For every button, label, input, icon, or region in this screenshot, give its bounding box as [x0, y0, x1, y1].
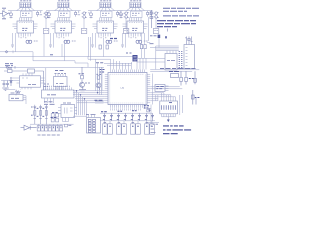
- relay pins down: [63, 118, 69, 122]
- pin pads between U6 and J5: [179, 52, 183, 68]
- oscillator OSC1: [9, 95, 23, 101]
- diamond junction symbols: [5, 51, 8, 53]
- bus line above J7: [30, 123, 74, 125]
- right bus 4 lines: [150, 46, 179, 69]
- sheet text: [163, 126, 191, 134]
- brace mark under notes: [167, 29, 169, 32]
- transistor Q6: [96, 74, 101, 90]
- QFP left pins: [105, 75, 108, 103]
- label left margin: [5, 64, 13, 66]
- net labels: [101, 111, 107, 113]
- channel 2 J2/U2: [46, 1, 87, 48]
- labels RN row: [44, 102, 55, 105]
- caps C1 C2 w/ ground: [2, 81, 9, 91]
- crystal X1 block: [4, 68, 44, 90]
- resistor R5: [15, 91, 21, 93]
- terminal blocks TB1-TB4: [103, 124, 155, 134]
- header J8: [87, 118, 101, 134]
- small part right of J7: [65, 124, 68, 127]
- verticals above QFP: [104, 51, 176, 70]
- part cluster left of relay: [51, 114, 58, 122]
- left column wires: [148, 95, 159, 127]
- pin label row under QFP: [111, 108, 141, 110]
- QFP top pins: [111, 70, 145, 73]
- ground arrow under J6: [167, 120, 170, 123]
- channel 3 J3/U3: [88, 1, 129, 48]
- dark label block: [133, 55, 138, 62]
- notes text block top right: [163, 8, 199, 16]
- xtal block right: [155, 85, 165, 92]
- wire ch1 lower bus: [0, 34, 133, 91]
- dsPIC U5 QFP body: [108, 73, 147, 105]
- diode D1: [10, 77, 12, 86]
- wire mesh left of QFP: [73, 59, 105, 117]
- channel 4 J4/U4: [118, 1, 159, 48]
- QFP right pins: [147, 75, 150, 103]
- bottom connector J7: [37, 126, 62, 131]
- cap C20 right of ch4: [150, 10, 153, 28]
- relay K1: [61, 105, 75, 118]
- buffer U10 triangle: [21, 125, 37, 130]
- U8 top pins: [44, 87, 72, 90]
- op-amp U1A left edge: [0, 8, 10, 19]
- led drivers bottom left: [34, 105, 48, 124]
- corner parts bottom right: [192, 90, 200, 105]
- bus lines under QFP: [100, 113, 155, 121]
- driver IC U6: [165, 54, 177, 71]
- transistor Q5: [79, 67, 91, 91]
- ISP header J6: [160, 101, 178, 114]
- ch4 resistors R10 R11: [142, 33, 145, 45]
- wire ch2 vertical pair: [62, 37, 91, 61]
- cap C30: [169, 72, 179, 78]
- connector J5: [184, 45, 195, 69]
- small parts row x120-130: [126, 52, 132, 54]
- zener row: [103, 113, 153, 121]
- parts above J5: [185, 37, 193, 45]
- ch3 ref label: [110, 38, 117, 40]
- QFP bottom pins: [111, 105, 145, 108]
- reg parts: [180, 71, 197, 85]
- right mesh verticals: [150, 74, 182, 105]
- RAM U8 wide IC: [42, 90, 75, 98]
- channel 1 J1/U1: [8, 1, 49, 48]
- ref IC U9: [54, 71, 68, 90]
- REF symbol right of ch4: [158, 35, 161, 38]
- U8 bottom pins: [45, 98, 54, 103]
- right side top rail: [150, 70, 199, 72]
- power IC U7: [20, 76, 41, 87]
- label near bus: [96, 62, 103, 64]
- svg-text:U5: U5: [121, 86, 125, 90]
- labels near QFP bottom left: [95, 99, 103, 101]
